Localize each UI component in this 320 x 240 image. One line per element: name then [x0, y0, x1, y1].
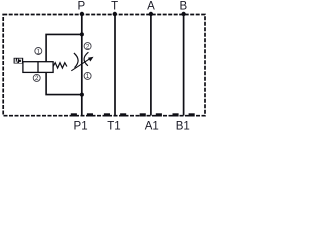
node A (top junction dot)	[149, 12, 153, 16]
wire P to P1 (vertical P line)	[81, 14, 83, 116]
port pads A1	[140, 113, 146, 116]
valve V1 body (2/2 bypass valve, two position boxes)	[23, 62, 53, 73]
adjustment arrow of throttle V2	[71, 59, 90, 71]
node P (top junction dot)	[80, 12, 84, 16]
port pads T1	[104, 113, 110, 116]
wire A to A1	[150, 14, 152, 116]
svg-text:1: 1	[86, 73, 90, 80]
svg-text:2: 2	[35, 75, 39, 82]
svg-text:P: P	[77, 1, 85, 13]
wire lower bypass branch (valve port 2 to P line)	[46, 72, 82, 94]
port number 2 of throttle V2 (circled)	[84, 43, 91, 51]
svg-text:T1: T1	[107, 120, 120, 132]
junction lower branch on P line	[80, 93, 84, 97]
svg-text:1: 1	[37, 48, 41, 55]
wire upper bypass branch (P line to valve port 1)	[46, 34, 82, 61]
node B (top junction dot)	[181, 12, 185, 16]
sandwich-plate dashed enclosure	[3, 15, 205, 116]
svg-text:2: 2	[86, 43, 90, 50]
node T (top junction dot)	[113, 12, 117, 16]
svg-text:A: A	[147, 1, 155, 13]
port number 1 of throttle V2 (circled)	[84, 72, 91, 80]
spring of valve V1	[53, 63, 67, 68]
junction upper branch on P line	[80, 32, 84, 36]
solenoid actuator of valve V1 (black box with white marks)	[14, 58, 24, 64]
svg-text:B1: B1	[176, 120, 190, 132]
port pads P1 (bottom interface)	[71, 113, 77, 116]
svg-text:P1: P1	[74, 120, 88, 132]
svg-text:T: T	[111, 1, 118, 13]
wire B to B1	[183, 14, 185, 116]
port pads B1	[173, 113, 179, 116]
svg-text:B: B	[179, 1, 187, 13]
port number 2 of valve V1 (circled)	[33, 74, 40, 82]
svg-text:A1: A1	[145, 120, 159, 132]
port number 1 of valve V1 (circled)	[35, 48, 42, 56]
wire T to T1	[114, 14, 116, 116]
throttle valve V2 (adjustable restrictor on P line) arcs	[74, 53, 78, 68]
